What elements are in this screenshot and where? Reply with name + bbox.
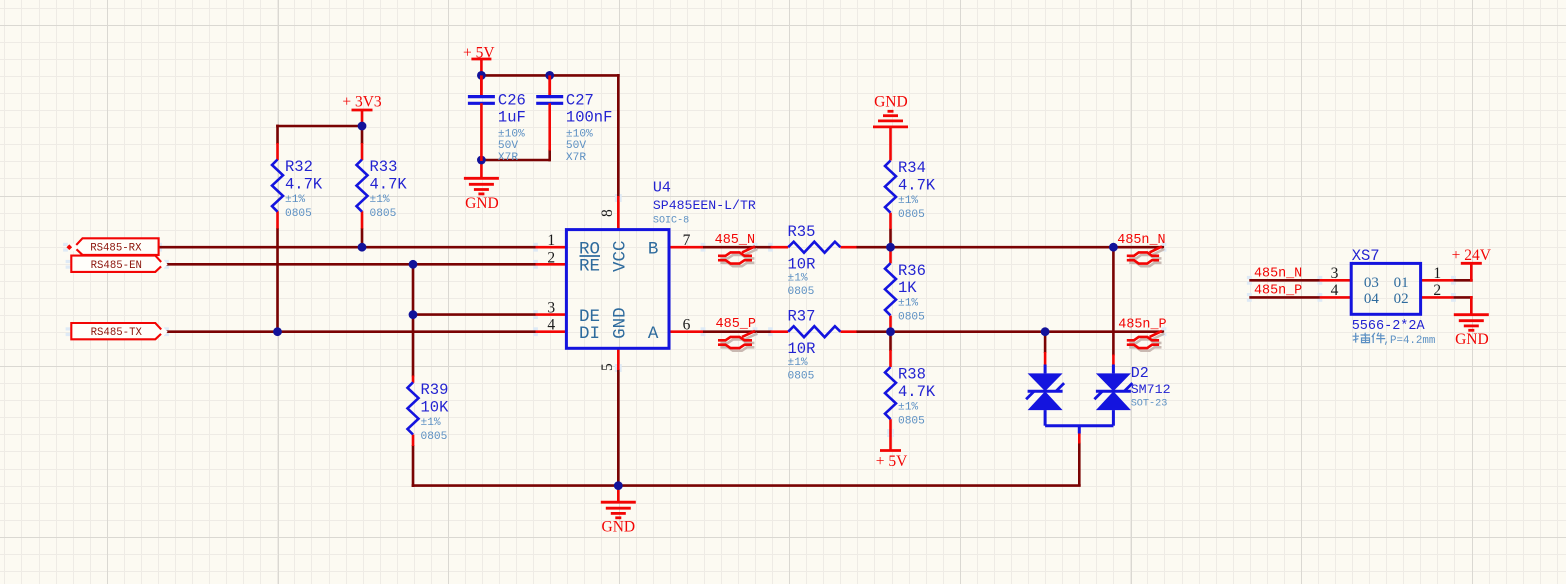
svg-text:B: B (648, 239, 659, 259)
wire D2 center to ground rail (1078, 443, 1081, 486)
wire R37 to 485n_P end (856, 330, 1164, 333)
pin number 4 XS7 (1331, 282, 1339, 299)
wire R34 bottom (889, 229, 892, 248)
pin name RE (579, 256, 600, 277)
wire R32 bottom to RS485-TX (276, 228, 279, 332)
net label 485n_P (1118, 317, 1166, 332)
svg-text:485_P: 485_P (716, 317, 757, 332)
pin name RO (579, 239, 600, 259)
label XS7 designator (1352, 247, 1380, 265)
R33 leads (361, 143, 364, 229)
svg-text:4.7K: 4.7K (370, 176, 408, 194)
svg-text:R35: R35 (788, 223, 816, 241)
wire R33 bottom to RS485-RX (361, 228, 364, 247)
wire R33 top (361, 125, 364, 144)
pin 5 stub U4 (617, 348, 620, 370)
svg-text:10R: 10R (788, 256, 816, 274)
stem GND right (1470, 296, 1473, 315)
pin number 5 (599, 363, 616, 371)
svg-text:R32: R32 (285, 158, 313, 176)
svg-text:10K: 10K (421, 398, 450, 416)
svg-text:U4: U4 (653, 179, 671, 196)
junction RX/R33 (358, 243, 367, 252)
D2 anode pin right (1112, 355, 1115, 365)
svg-text:VCC: VCC (610, 240, 630, 272)
svg-text:6: 6 (683, 317, 691, 334)
svg-text:X7R: X7R (498, 152, 518, 164)
net label 485n_N (1117, 233, 1165, 248)
wire R39 bottom (412, 445, 415, 487)
XS7 pin 3 stub (1320, 279, 1351, 282)
svg-text:±10%: ±10% (498, 128, 525, 140)
svg-text:GND: GND (1455, 331, 1489, 348)
svg-text:4: 4 (1331, 282, 1339, 299)
label C26 (498, 91, 526, 164)
pin number 3 XS7 (1331, 265, 1339, 282)
svg-text:GND: GND (874, 94, 908, 111)
wire R32 top (276, 125, 279, 144)
svg-text:3: 3 (547, 300, 555, 317)
svg-text:4.7K: 4.7K (285, 176, 323, 194)
label D2 value (1131, 382, 1171, 397)
label U4 footprint (653, 216, 689, 227)
svg-text:5: 5 (599, 363, 616, 371)
svg-text:1: 1 (547, 232, 555, 249)
R35 leads (771, 246, 857, 249)
svg-text:R36: R36 (898, 262, 926, 280)
wire bottom ground rail (412, 484, 1081, 487)
junction +5V/C27 (545, 71, 554, 80)
svg-text:01: 01 (1394, 275, 1409, 291)
stem +24V (1470, 263, 1473, 281)
pin name GND (610, 307, 630, 339)
svg-text:D2: D2 (1131, 365, 1149, 382)
svg-text:3: 3 (1331, 265, 1339, 282)
pin number 2 XS7 (1433, 282, 1441, 299)
svg-text:SP485EEN-L/TR: SP485EEN-L/TR (653, 198, 756, 213)
pin 8 stub U4 (617, 196, 620, 230)
label U4 value (653, 198, 756, 213)
wire 485_P down to D2 (1044, 332, 1047, 353)
pin name 01 (1394, 275, 1409, 291)
XS7 pin 4 stub (1320, 296, 1351, 299)
pin number 6 (683, 317, 691, 334)
junction TX/R32 (273, 327, 282, 336)
svg-text:R38: R38 (898, 366, 926, 384)
svg-text:0805: 0805 (421, 431, 448, 443)
svg-text:R37: R37 (788, 307, 816, 325)
pin number 4 (547, 317, 555, 334)
svg-text:±1%: ±1% (370, 194, 390, 206)
svg-text:X7R: X7R (566, 152, 586, 164)
wire D2 bottom tie (1045, 426, 1113, 434)
XS7 pin 1 stub (1421, 279, 1454, 282)
svg-text:±1%: ±1% (788, 273, 808, 285)
ground GND at XS7 (1454, 315, 1489, 348)
svg-text:4.7K: 4.7K (898, 383, 936, 401)
resistor R33 (357, 158, 408, 220)
svg-text:RS485-EN: RS485-EN (91, 260, 142, 272)
svg-text:7: 7 (683, 232, 691, 249)
D2 anode pin left (1044, 352, 1047, 365)
port RS485-EN (71, 256, 167, 272)
connector XS7 body (1351, 263, 1420, 314)
svg-text:1uF: 1uF (498, 109, 526, 127)
svg-text:485n_N: 485n_N (1117, 233, 1165, 248)
resistor R39 (408, 381, 450, 443)
junction P/R36-R38 (886, 327, 895, 336)
svg-text:C27: C27 (566, 91, 594, 109)
R36 leads (889, 247, 892, 332)
svg-text:02: 02 (1394, 291, 1409, 307)
junction EN node (409, 260, 418, 269)
net label 485n_N at XS7 (1254, 266, 1302, 281)
svg-text:,P=4.2mm: ,P=4.2mm (1384, 335, 1436, 347)
svg-text:+ 24V: + 24V (1452, 247, 1492, 264)
power +5V bottom (876, 451, 908, 471)
wire 485_N down to D2 (1112, 247, 1115, 355)
diode D2 right element (1094, 365, 1132, 426)
svg-text:8: 8 (599, 209, 616, 217)
D2 cathode pin (1078, 433, 1081, 443)
wire +5V rail (481, 74, 619, 77)
net label 485n_P at XS7 (1254, 283, 1302, 298)
wire RS485-TX to pin 4 (163, 330, 535, 333)
svg-text:4.7K: 4.7K (898, 177, 936, 195)
svg-text:50V: 50V (498, 140, 518, 152)
svg-text:DI: DI (579, 324, 600, 344)
pin name B (648, 239, 659, 259)
svg-text:±1%: ±1% (788, 357, 808, 369)
resistor R32 (272, 158, 323, 220)
svg-text:±1%: ±1% (421, 417, 441, 429)
svg-text:RS485-RX: RS485-RX (90, 243, 142, 255)
pin number 1 XS7 (1433, 265, 1441, 282)
svg-text:±1%: ±1% (898, 298, 918, 310)
pin 7 stub U4 (669, 246, 703, 249)
port RS485-TX (71, 323, 167, 339)
junction DE node (409, 310, 418, 319)
svg-text:2: 2 (547, 249, 555, 266)
node connection ticks (63, 194, 1456, 437)
svg-text:R39: R39 (421, 381, 449, 399)
svg-text:±1%: ±1% (898, 402, 918, 414)
diff-pair symbol 485_N (718, 246, 757, 266)
svg-text:+ 3V3: + 3V3 (342, 94, 382, 111)
pin 4 stub U4 (536, 330, 567, 333)
svg-text:100nF: 100nF (566, 109, 613, 127)
pin name VCC (610, 240, 630, 272)
R32 leads (276, 143, 279, 229)
diff-pair symbol 485n_P (1127, 331, 1165, 351)
R38 leads (889, 350, 892, 451)
capacitor C26 (468, 75, 495, 161)
svg-text:0805: 0805 (898, 416, 925, 428)
junction N/D2 (1109, 243, 1118, 252)
label D2 footprint (1131, 399, 1168, 410)
pin 2 stub U4 (536, 263, 567, 266)
junction +3V3/R33 (358, 122, 367, 131)
resistor R37 (788, 307, 841, 382)
svg-text:SOIC-8: SOIC-8 (653, 216, 689, 227)
svg-text:+ 5V: + 5V (463, 45, 495, 62)
svg-text:R34: R34 (898, 159, 926, 177)
diff-pair symbol 485n_N (1127, 246, 1165, 266)
wire R38 top (889, 332, 892, 351)
svg-text:R33: R33 (370, 158, 398, 176)
svg-text:0805: 0805 (285, 208, 312, 220)
svg-text:485n_P: 485n_P (1118, 317, 1166, 332)
svg-text:RE: RE (579, 257, 600, 277)
power +3V3 (342, 94, 382, 126)
label U4 designator (653, 179, 671, 196)
svg-text:10R: 10R (788, 340, 816, 358)
ground GND under C26 (464, 160, 499, 212)
pin name 04 (1364, 291, 1380, 307)
svg-text:RS485-TX: RS485-TX (91, 327, 143, 339)
svg-text:485n_N: 485n_N (1254, 266, 1302, 281)
diode D2 left element (1026, 365, 1064, 426)
pin name DI (579, 324, 600, 344)
port RS485-RX (66, 238, 158, 255)
label C27 (566, 91, 613, 164)
XS7 pin 2 stub (1421, 296, 1454, 299)
junction N/R34-R36 (886, 243, 895, 252)
svg-text:485n_P: 485n_P (1254, 283, 1302, 298)
resistor R36 (885, 262, 926, 324)
svg-text:1K: 1K (898, 279, 917, 297)
pin number 8 (599, 209, 616, 217)
wire pin 5 to ground rail (617, 369, 620, 486)
wire R35 to 485n_N end (856, 246, 1164, 249)
pin number 1 (547, 232, 555, 249)
pin name DE (579, 307, 600, 327)
svg-text:±1%: ±1% (285, 194, 305, 206)
wire 485n_P stub at XS7 (1249, 296, 1320, 299)
svg-text:485_N: 485_N (715, 233, 756, 248)
label XS7 description (1353, 333, 1436, 347)
junction +5V/C26 (477, 71, 486, 80)
pin 6 stub U4 (669, 330, 703, 333)
wire EN node down to R39 (412, 264, 415, 376)
pin name 03 (1364, 275, 1379, 291)
wire XS7 pin2 to GND corner (1453, 296, 1472, 299)
svg-text:04: 04 (1364, 291, 1380, 307)
svg-text:0805: 0805 (370, 208, 397, 220)
resistor R38 (885, 366, 936, 428)
pin 3 stub U4 (536, 313, 567, 316)
wire RS485-EN to pin 2 (163, 263, 535, 266)
wire XS7 pin1 to +24V corner (1453, 279, 1472, 282)
pin name 02 (1394, 291, 1409, 307)
net label 485_P (716, 317, 757, 332)
power +5V top (463, 45, 495, 76)
power +24V (1452, 247, 1492, 264)
R37 leads (771, 330, 857, 333)
junction P/D2 (1041, 327, 1050, 336)
pin number 3 (547, 300, 555, 317)
wire pin 6 A to R37 (703, 330, 772, 333)
pin 1 stub U4 (536, 246, 567, 249)
svg-text:4: 4 (547, 317, 555, 334)
junction C26 gnd (477, 156, 486, 165)
label XS7 value (1352, 319, 1426, 334)
svg-text:0805: 0805 (788, 286, 815, 298)
ground GND top at R34 (873, 94, 908, 127)
wire pin 7 B to R35 (703, 246, 772, 249)
svg-text:SOT-23: SOT-23 (1131, 399, 1168, 410)
pin name A (648, 324, 659, 344)
R39 leads (412, 376, 415, 447)
svg-text:GND: GND (610, 307, 630, 339)
wire RS485-RX to pin 1 (159, 246, 536, 249)
junction rail/GND (614, 481, 623, 490)
svg-text:GND: GND (465, 195, 499, 212)
svg-text:GND: GND (602, 518, 636, 535)
ground GND under pin 5 (601, 486, 636, 536)
diff-pair symbol 485_P (718, 331, 757, 351)
net label 485_N (715, 233, 756, 248)
label D2 (1131, 365, 1149, 382)
svg-text:2: 2 (1433, 282, 1441, 299)
resistor R34 (885, 159, 936, 221)
wire +3V3 rail (276, 125, 362, 128)
svg-text:50V: 50V (566, 140, 586, 152)
svg-text:XS7: XS7 (1352, 247, 1380, 265)
svg-text:±1%: ±1% (898, 195, 918, 207)
wire DE from node (413, 313, 536, 316)
wire 485n_N stub at XS7 (1249, 279, 1320, 282)
op-amp U4 body (566, 230, 669, 349)
wire C26-C27 bottom (480, 150, 550, 162)
svg-text:03: 03 (1364, 275, 1379, 291)
pin number 2 (547, 249, 555, 266)
svg-text:±10%: ±10% (566, 128, 593, 140)
svg-text:A: A (648, 324, 659, 344)
svg-text:5566-2*2A: 5566-2*2A (1352, 319, 1426, 334)
svg-text:SM712: SM712 (1131, 382, 1171, 397)
R34 leads (889, 127, 892, 229)
svg-text:0805: 0805 (788, 371, 815, 383)
capacitor C27 (536, 75, 563, 150)
svg-text:+ 5V: + 5V (876, 453, 908, 470)
svg-text:0805: 0805 (898, 312, 925, 324)
pin number 7 (683, 232, 691, 249)
resistor R35 (788, 223, 841, 298)
svg-text:0805: 0805 (898, 209, 925, 221)
wire VCC drop to pin 8 (617, 74, 620, 197)
svg-text:1: 1 (1433, 265, 1441, 282)
svg-text:C26: C26 (498, 91, 526, 109)
